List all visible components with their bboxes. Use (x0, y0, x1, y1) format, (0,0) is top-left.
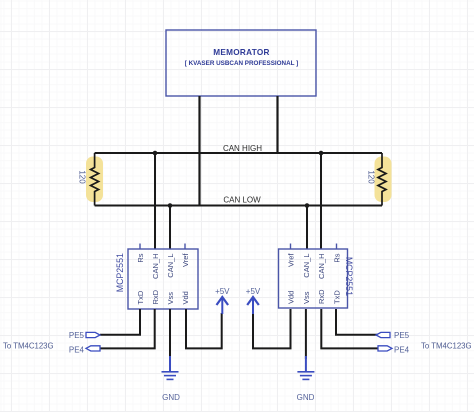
port PE4 right (378, 346, 410, 355)
ground left (162, 356, 181, 402)
power +5V left (215, 287, 230, 314)
junction on CAN HIGH left (153, 151, 158, 156)
wire Vdd left to +5V (186, 309, 222, 348)
svg-text:+5V: +5V (215, 287, 230, 296)
svg-text:Vref: Vref (181, 253, 190, 267)
svg-text:[ KVASER USBCAN PROFESSIONAL ]: [ KVASER USBCAN PROFESSIONAL ] (185, 60, 298, 67)
port PE4 left (69, 346, 100, 355)
wire CAN_L riser left (169, 206, 171, 250)
junction on CAN LOW right (305, 203, 310, 208)
svg-text:PE4: PE4 (69, 346, 85, 355)
wire RxD left to PE4 (100, 309, 155, 348)
pin stub Vref U1 (184, 244, 186, 250)
resistor R1 120 left (78, 153, 99, 206)
svg-text:CAN_L: CAN_L (166, 254, 175, 278)
svg-text:CAN_H: CAN_H (151, 254, 160, 279)
wire Vss left to ground (169, 309, 171, 359)
svg-text:To TM4C123G: To TM4C123G (421, 342, 472, 351)
highlight left resistor (86, 157, 103, 203)
op-amp U2 MCP2551 right transceiver (279, 244, 355, 309)
wire CAN LOW bus (95, 205, 382, 207)
wire memorator pin1 to CAN LOW (198, 96, 200, 206)
wire CAN_L riser right (306, 206, 308, 250)
svg-text:+5V: +5V (246, 287, 261, 296)
svg-text:TxD: TxD (136, 290, 145, 304)
MEMORATOR box U3 (166, 30, 316, 96)
svg-text:Vdd: Vdd (181, 291, 190, 304)
wire memorator pin2 to CAN HIGH (276, 96, 278, 153)
svg-text:GND: GND (297, 393, 315, 402)
svg-text:120: 120 (367, 170, 376, 184)
wire Vss right to ground (305, 309, 307, 359)
port PE5 right (376, 331, 410, 340)
svg-text:GND: GND (162, 393, 180, 402)
junction on CAN HIGH right (319, 151, 324, 156)
svg-text:CAN HIGH: CAN HIGH (223, 144, 262, 153)
wire Vdd right to +5V (253, 309, 291, 348)
svg-text:RxD: RxD (151, 289, 160, 304)
wire CAN HIGH bus (95, 152, 382, 154)
wire CAN_H riser left (154, 153, 156, 249)
svg-text:MEMORATOR: MEMORATOR (213, 48, 270, 57)
svg-text:RxD: RxD (317, 289, 326, 304)
svg-text:PE4: PE4 (394, 346, 410, 355)
junction on CAN LOW left (168, 203, 173, 208)
pin stub Vref U2 (290, 244, 292, 250)
svg-text:TxD: TxD (333, 290, 342, 304)
svg-text:PE5: PE5 (69, 331, 85, 340)
power +5V right (246, 287, 261, 314)
svg-text:Rs: Rs (136, 253, 145, 262)
resistor R2 120 right (367, 153, 387, 206)
svg-text:MCP2551: MCP2551 (115, 253, 125, 292)
svg-text:MCP2551: MCP2551 (344, 257, 354, 296)
svg-text:Vdd: Vdd (287, 291, 296, 304)
svg-text:CAN_L: CAN_L (302, 254, 311, 278)
svg-text:CAN_H: CAN_H (317, 254, 326, 279)
svg-text:CAN LOW: CAN LOW (223, 196, 261, 205)
svg-text:Vss: Vss (302, 291, 311, 304)
ground right (297, 356, 315, 402)
svg-text:PE5: PE5 (394, 331, 410, 340)
op-amp U1 MCP2551 left transceiver (115, 244, 198, 310)
wire TxD left to PE5 (100, 309, 140, 335)
svg-text:Vss: Vss (166, 292, 175, 305)
pin stub Rs U2 (336, 244, 338, 250)
wire RxD right to PE4 (321, 309, 378, 348)
svg-text:Rs: Rs (333, 253, 342, 262)
wire CAN_H riser right (320, 153, 322, 249)
svg-text:Vref: Vref (287, 253, 296, 267)
highlight right resistor (375, 157, 392, 203)
svg-text:To TM4C123G: To TM4C123G (3, 342, 54, 351)
pin stub Rs U1 (139, 244, 141, 250)
port PE5 left (69, 331, 100, 340)
svg-text:120: 120 (78, 170, 87, 184)
wire TxD right to PE5 (336, 309, 378, 335)
